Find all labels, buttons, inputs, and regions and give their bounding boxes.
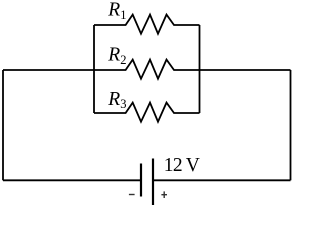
svg-text:R3: R3 xyxy=(107,89,126,111)
svg-text:R1: R1 xyxy=(107,0,126,22)
svg-text:12 V: 12 V xyxy=(164,155,200,176)
svg-text:R2: R2 xyxy=(107,45,126,67)
